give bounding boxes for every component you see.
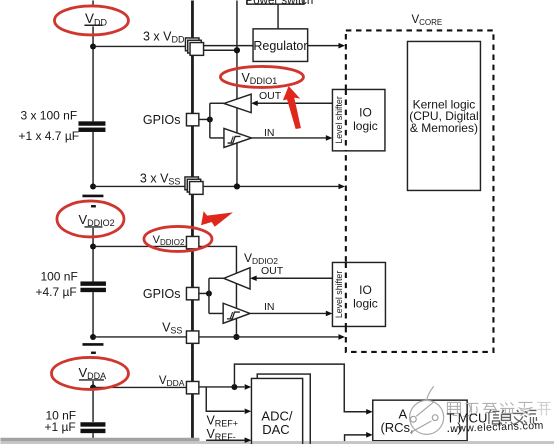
node VDDIO2 supply label bbox=[78, 212, 114, 228]
node junction VDDA bbox=[90, 384, 96, 390]
wire C2 to VSS2 line bbox=[92, 292, 94, 337]
wire VDDIO2 pin to buffer rail bbox=[199, 246, 237, 337]
node junction rail VSS bbox=[234, 183, 240, 189]
watermark logo circle bbox=[410, 386, 444, 434]
ADC DAC back box bbox=[257, 374, 310, 444]
input schmitt buffer lower bbox=[223, 303, 250, 323]
wire VSS line to VCORE bbox=[203, 185, 338, 187]
kernel logic box bbox=[407, 41, 480, 190]
red ellipse around VDD bbox=[54, 6, 128, 35]
svg-text:Level shifter: Level shifter bbox=[334, 271, 344, 318]
watermark row2 CJK glyphs bbox=[488, 410, 536, 425]
main pin bus line bbox=[191, 0, 194, 438]
svg-text:GPIOs: GPIOs bbox=[143, 113, 181, 127]
svg-text:Power switch: Power switch bbox=[246, 0, 314, 7]
arrowhead VDDA into ADC bbox=[245, 384, 252, 390]
arrowhead OUT2 into buffer bbox=[250, 275, 257, 281]
svg-text:Regulator: Regulator bbox=[253, 39, 307, 53]
wire into analog block lower bbox=[345, 435, 367, 442]
wire VSS2 line to VCORE bbox=[199, 336, 339, 338]
arrowhead VREF- into ADC bbox=[245, 437, 252, 443]
node junction VDDIO2 bbox=[90, 243, 96, 249]
hysteresis symbol upper bbox=[228, 136, 241, 143]
svg-text:3 x 100 nF: 3 x 100 nF bbox=[20, 108, 77, 122]
wire OUT2 from level shifter bbox=[256, 277, 332, 279]
ADC DAC front box bbox=[251, 378, 302, 444]
node VDDA supply label bbox=[78, 365, 106, 381]
svg-text:+4.7 µF: +4.7 µF bbox=[35, 285, 76, 299]
output buffer driver upper bbox=[224, 94, 251, 113]
wire pin to rail junction bbox=[204, 49, 237, 51]
svg-text:IO: IO bbox=[359, 105, 372, 119]
wire pin to regulator bbox=[204, 45, 254, 47]
node junction rail VSS2 bbox=[233, 334, 239, 340]
wire pad node vertical bbox=[209, 103, 211, 138]
pin GPIOs upper bbox=[186, 113, 198, 125]
wire VDDIO2 down bbox=[92, 228, 94, 282]
pin 3xVSS stacked squares bbox=[185, 177, 203, 194]
svg-text:logic: logic bbox=[353, 296, 378, 310]
node junction VSS left bbox=[90, 183, 96, 189]
wire VREF- over band bbox=[206, 439, 244, 441]
node pad junction upper bbox=[207, 116, 213, 122]
pin VDDA bbox=[186, 381, 198, 393]
wire pin to pad node lower bbox=[199, 292, 209, 294]
IO logic / level shifter box upper bbox=[332, 89, 385, 150]
wire VDD to pin bbox=[93, 45, 188, 47]
pin VDDIO2 bbox=[186, 236, 198, 248]
bottom gray band bbox=[0, 441, 554, 444]
node VDD label bbox=[84, 11, 107, 27]
svg-text:Level shifter: Level shifter bbox=[334, 96, 344, 143]
wire C3 down bbox=[92, 433, 94, 438]
svg-text:& Memories): & Memories) bbox=[410, 121, 478, 135]
red ellipse around VDDIO2 pin bbox=[144, 226, 212, 251]
wire VREF- bbox=[206, 439, 244, 441]
arrowhead into analog block lower bbox=[366, 432, 373, 438]
ground symbol 2 bbox=[82, 344, 103, 352]
svg-text:IN: IN bbox=[264, 127, 275, 139]
wire OUT from level shifter bbox=[257, 102, 332, 104]
wire pin to pad node bbox=[199, 118, 210, 120]
red ellipse around VDDIO2 supply bbox=[57, 201, 124, 237]
vertical rail from top to VSS line bbox=[236, 0, 238, 186]
wire VDDA to pin bbox=[93, 386, 186, 388]
arrowhead OUT into buffer bbox=[251, 100, 258, 106]
red ellipse around VDDIO1 bbox=[220, 66, 303, 87]
wire C1 to VSS line bbox=[92, 131, 94, 186]
pin 3xVDD stacked squares bbox=[185, 38, 203, 55]
svg-text:DAC: DAC bbox=[262, 422, 289, 437]
svg-text:100 nF: 100 nF bbox=[40, 269, 77, 283]
VCORE dashed border crossing IO boxes bbox=[345, 89, 347, 326]
node junction VDD bbox=[90, 43, 96, 49]
power switch box bbox=[246, 0, 314, 7]
arrowhead IN into level shifter bbox=[326, 135, 333, 141]
watermark row1 outlined glyphs bbox=[447, 402, 550, 416]
svg-text:+1 µF: +1 µF bbox=[44, 420, 75, 434]
regulator U1 bbox=[253, 29, 308, 62]
arrowhead into VCORE bbox=[338, 43, 345, 49]
output buffer driver lower bbox=[224, 268, 250, 289]
svg-text:OUT: OUT bbox=[259, 90, 282, 102]
arrowhead IN2 into level shifter bbox=[326, 311, 333, 317]
node junction VSS2 left bbox=[90, 334, 96, 340]
wire IN2 to level shifter bbox=[250, 312, 326, 314]
red ellipse around VDDA bbox=[51, 357, 128, 389]
svg-text:GPIOs: GPIOs bbox=[143, 287, 181, 301]
node junction rail VDD bbox=[234, 47, 240, 53]
wire stub to input buffer bbox=[210, 137, 224, 139]
arrowhead VREF- into ADC over band bbox=[245, 437, 252, 443]
input schmitt buffer upper bbox=[224, 128, 252, 147]
wire VREF+ branch bbox=[206, 387, 244, 411]
wire VDDIO2 to pin bbox=[93, 245, 186, 247]
hysteresis symbol lower bbox=[227, 312, 240, 319]
ground symbol 1 bbox=[82, 196, 103, 206]
wire stub above VDD supply bbox=[92, 0, 94, 5]
red annotation arrow upper bbox=[283, 86, 301, 129]
arrowhead VSS2 into VCORE bbox=[338, 334, 345, 340]
pin VSS lower bbox=[186, 331, 198, 343]
svg-text:OUT: OUT bbox=[261, 265, 284, 277]
wire VSS2 line left bbox=[93, 336, 186, 338]
wire power switch to regulator bbox=[277, 4, 279, 29]
IO logic / level shifter box lower bbox=[332, 262, 385, 326]
node junction VDDA analog bbox=[231, 384, 237, 390]
svg-text:logic: logic bbox=[353, 119, 378, 133]
wire pad node vertical lower bbox=[208, 278, 210, 313]
wire IN to level shifter bbox=[251, 137, 326, 139]
wire VDD down bbox=[92, 26, 94, 121]
wire VDDA down bbox=[92, 381, 94, 422]
svg-text:(RCs,: (RCs, bbox=[380, 420, 413, 435]
capacitor C3 bbox=[80, 422, 105, 433]
red annotation arrow lower bbox=[201, 211, 233, 227]
wire stub to output buffer lower bbox=[209, 277, 224, 279]
arrowhead VSS into VCORE bbox=[338, 184, 345, 190]
pin GPIOs lower bbox=[186, 287, 198, 299]
wire VSS line left bbox=[93, 185, 188, 187]
svg-text:IN: IN bbox=[264, 301, 275, 313]
capacitor C2 bbox=[80, 281, 106, 292]
node pad junction lower bbox=[206, 290, 212, 296]
svg-text:+1 x 4.7 µF: +1 x 4.7 µF bbox=[18, 129, 79, 143]
analog block box bbox=[373, 400, 467, 441]
arrowhead VREF+ into ADC bbox=[245, 408, 252, 414]
wire VDDA pin to ADC bbox=[199, 386, 245, 388]
wire stub to output buffer bbox=[210, 102, 224, 104]
wire stub to input buffer lower bbox=[209, 312, 223, 314]
VCORE dashed domain box bbox=[346, 30, 494, 352]
arrowhead into analog block bbox=[366, 409, 373, 415]
ADC box edges over band bbox=[251, 441, 310, 444]
svg-text:IO: IO bbox=[359, 283, 372, 297]
capacitor C1 bbox=[78, 121, 105, 132]
wire VDDA to analog block bbox=[234, 364, 366, 412]
wire regulator output to VCORE bbox=[308, 45, 339, 47]
